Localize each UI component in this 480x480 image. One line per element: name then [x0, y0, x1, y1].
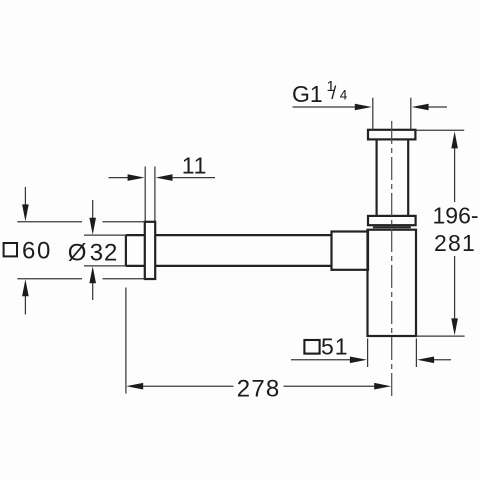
- dim 196-281 dimension line: [454, 146, 456, 321]
- arrow dia32 up: [89, 266, 96, 283]
- label sq51 square symbol: [304, 340, 319, 354]
- svg-text:281: 281: [434, 230, 476, 256]
- svg-text:4: 4: [340, 87, 348, 102]
- dim 196-281 extension lines: [415, 130, 464, 336]
- arrow G right: [355, 104, 372, 111]
- dim sq51 extension lines: [368, 339, 417, 368]
- svg-text:Ø: Ø: [68, 239, 87, 266]
- arrow 196 down: [451, 318, 458, 335]
- dim G1 1/4 extension lines: [373, 98, 411, 130]
- top connection flange: [368, 130, 415, 140]
- dim 11 dimension lines: [109, 177, 216, 179]
- dim sq51 dimension lines: [291, 359, 451, 361]
- arrow sq60 down: [22, 204, 29, 221]
- upper collar ring: [368, 216, 416, 225]
- label sq60 square symbol: [4, 243, 17, 256]
- wall flange plate: [145, 222, 155, 279]
- arrow dia32 down: [89, 218, 96, 235]
- arrow 11 left: [128, 174, 145, 181]
- horizontal inlet pipe: [126, 235, 332, 266]
- arrow G left: [412, 104, 429, 111]
- svg-text:32: 32: [90, 239, 118, 266]
- dim G1 1/4 dimension lines: [293, 106, 448, 108]
- dim 11 extension lines: [145, 167, 155, 222]
- svg-text:51: 51: [321, 333, 349, 359]
- svg-text:G1: G1: [292, 81, 323, 107]
- arrow sq51 right: [350, 357, 367, 364]
- arrow 196 up: [451, 131, 458, 148]
- center line: [391, 121, 393, 396]
- arrow 278 right: [374, 383, 391, 390]
- vertical riser pipe: [377, 139, 409, 216]
- dim sq60 arrow lines: [24, 187, 26, 315]
- cup top lip: [373, 226, 411, 228]
- svg-text:/: /: [331, 83, 336, 103]
- svg-text:278: 278: [237, 375, 281, 402]
- arrow 278 left: [126, 383, 143, 390]
- dim dia32 arrow lines: [92, 200, 94, 300]
- svg-text:196-: 196-: [433, 203, 479, 229]
- dim dia32 extension lines: [84, 235, 126, 266]
- dim 278 extension line: [125, 288, 127, 394]
- svg-text:11: 11: [182, 152, 207, 178]
- arrow 11 right: [156, 174, 173, 181]
- svg-text:60: 60: [22, 238, 52, 265]
- arrow sq60 up: [22, 279, 29, 296]
- dim 278 dimension lines: [141, 385, 377, 387]
- compression nut: [332, 232, 369, 270]
- arrow sq51 left: [417, 357, 434, 364]
- dim sq60 extension lines: [17, 222, 145, 279]
- trap body cup: [368, 230, 417, 336]
